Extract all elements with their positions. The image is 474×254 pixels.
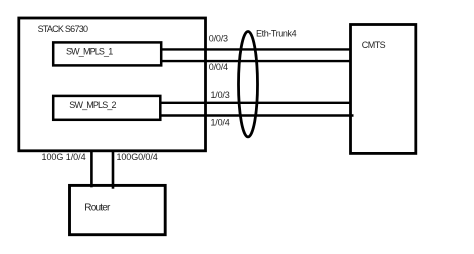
- svg-text:1/0/4: 1/0/4: [211, 117, 230, 127]
- Router box: [70, 185, 166, 234]
- svg-text:STACK S6730: STACK S6730: [38, 24, 88, 34]
- svg-text:0/0/4: 0/0/4: [209, 62, 228, 72]
- wire port 1/0/4: [160, 114, 354, 116]
- wire uplink right: [112, 151, 115, 189]
- wire port 0/0/3: [161, 48, 351, 50]
- wire port 1/0/3: [160, 102, 351, 104]
- svg-text:0/0/3: 0/0/3: [209, 34, 228, 44]
- svg-text:Eth-Trunk4: Eth-Trunk4: [256, 29, 297, 39]
- switch box SW_MPLS_1: [53, 42, 161, 65]
- chassis box STACK S6730: [19, 18, 206, 151]
- svg-text:Router: Router: [84, 203, 111, 214]
- trunk ellipse Eth-Trunk4: [239, 31, 258, 136]
- svg-text:100G0/0/4: 100G0/0/4: [117, 152, 158, 162]
- svg-text:CMTS: CMTS: [362, 40, 386, 50]
- wire uplink left: [90, 151, 93, 187]
- svg-text:100G 1/0/4: 100G 1/0/4: [42, 152, 86, 162]
- CMTS box: [351, 25, 416, 154]
- svg-text:SW_MPLS_2: SW_MPLS_2: [69, 100, 116, 110]
- svg-text:SW_MPLS_1: SW_MPLS_1: [66, 47, 113, 57]
- svg-text:1/0/3: 1/0/3: [211, 90, 230, 100]
- switch box SW_MPLS_2: [53, 96, 160, 120]
- wire port 0/0/4: [161, 60, 351, 62]
